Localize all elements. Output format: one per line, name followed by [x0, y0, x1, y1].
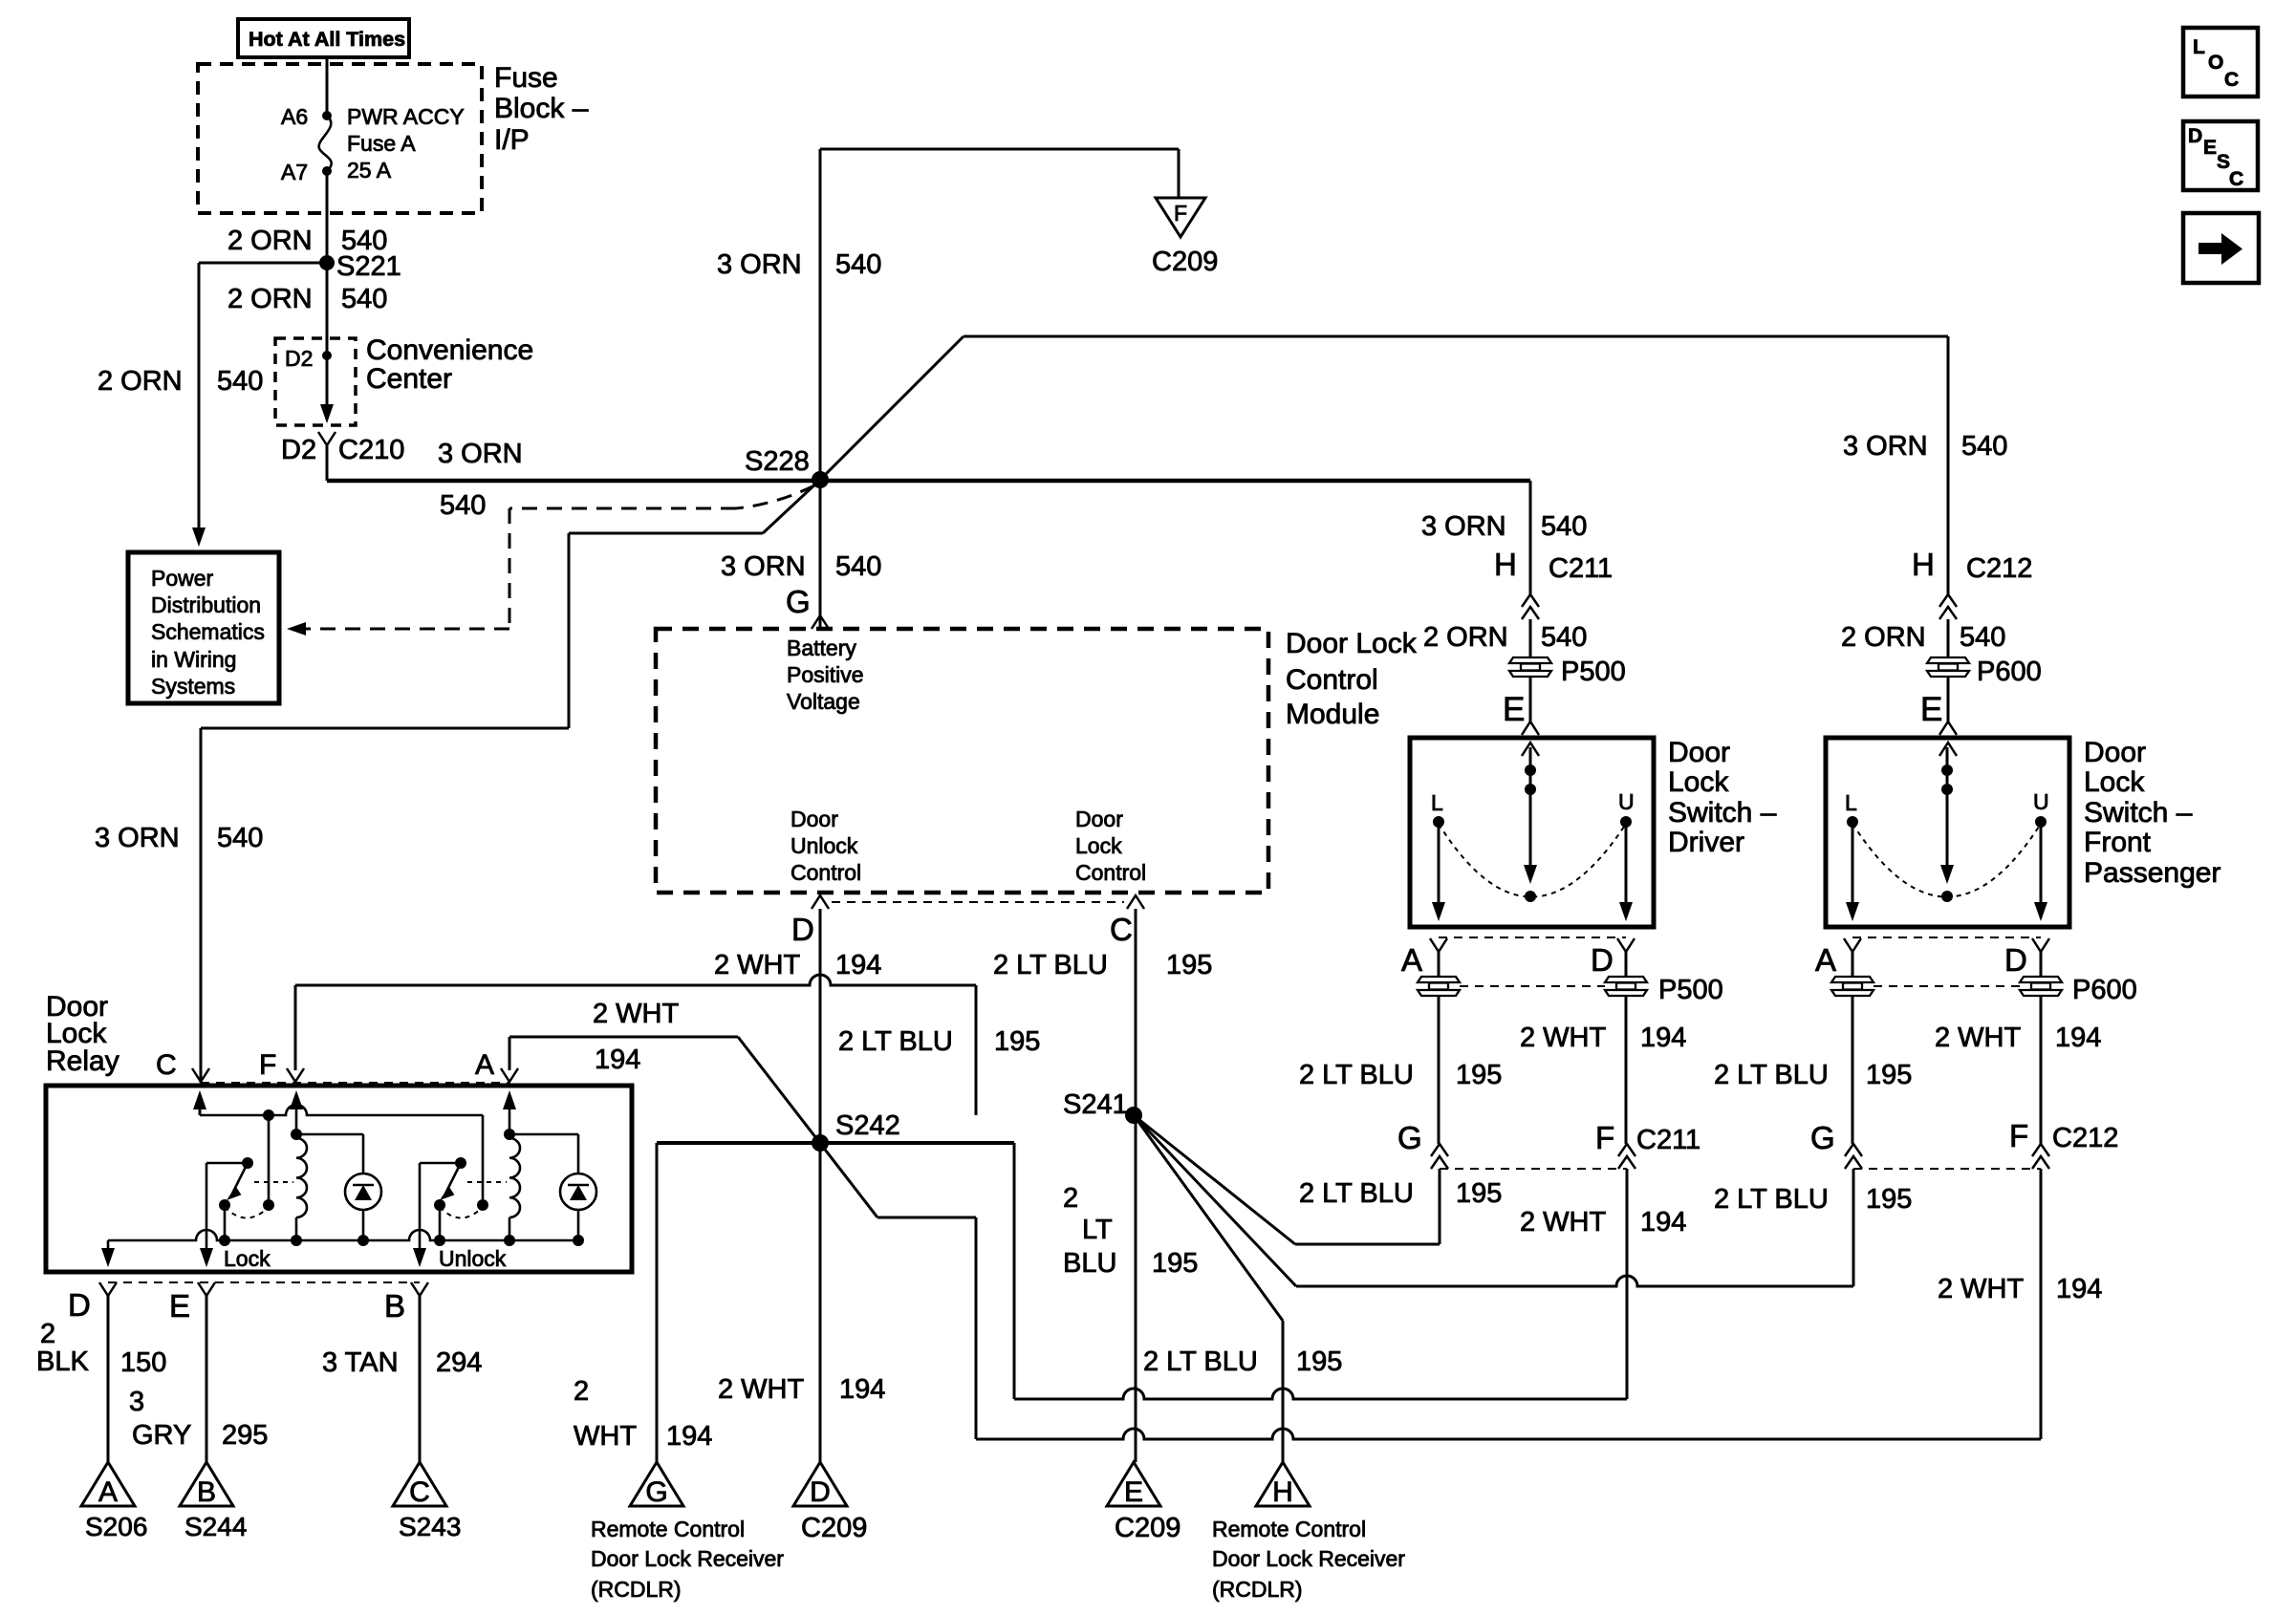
- svg-text:BLK: BLK: [36, 1346, 89, 1377]
- svg-text:L: L: [1845, 790, 1857, 815]
- svg-text:S243: S243: [399, 1512, 461, 1541]
- svg-text:C209: C209: [1152, 247, 1218, 277]
- svg-text:540: 540: [1541, 622, 1587, 653]
- svg-text:A: A: [475, 1049, 494, 1081]
- svg-text:Unlock: Unlock: [439, 1246, 507, 1271]
- svg-text:D: D: [1591, 942, 1614, 978]
- svg-text:S242: S242: [835, 1110, 900, 1141]
- svg-text:2 WHT: 2 WHT: [593, 999, 680, 1029]
- svg-text:Block –: Block –: [494, 93, 589, 124]
- svg-text:194: 194: [2055, 1023, 2101, 1053]
- svg-text:Center: Center: [366, 363, 452, 395]
- svg-text:Hot At All Times: Hot At All Times: [249, 28, 405, 51]
- svg-text:(RCDLR): (RCDLR): [591, 1577, 682, 1602]
- svg-text:Fuse: Fuse: [494, 62, 558, 94]
- svg-text:195: 195: [994, 1026, 1040, 1057]
- svg-text:E: E: [2203, 137, 2217, 159]
- svg-text:Door: Door: [791, 807, 838, 831]
- svg-text:194: 194: [835, 950, 881, 980]
- svg-text:D: D: [68, 1287, 91, 1323]
- svg-text:Relay: Relay: [46, 1045, 119, 1077]
- svg-text:C: C: [2229, 168, 2243, 190]
- svg-text:3: 3: [129, 1387, 144, 1417]
- svg-text:540: 540: [1541, 511, 1587, 542]
- svg-text:Lock: Lock: [1668, 766, 1729, 798]
- svg-text:A: A: [98, 1476, 118, 1508]
- svg-text:Power: Power: [151, 566, 214, 591]
- svg-text:GRY: GRY: [132, 1420, 191, 1451]
- svg-text:3 ORN: 3 ORN: [717, 249, 802, 280]
- svg-text:D: D: [791, 912, 814, 947]
- svg-text:540: 540: [217, 823, 263, 853]
- svg-text:E: E: [1503, 691, 1525, 728]
- svg-text:Lock: Lock: [224, 1246, 271, 1271]
- svg-text:L: L: [2193, 36, 2205, 58]
- svg-text:540: 540: [835, 249, 881, 280]
- svg-text:U: U: [1618, 789, 1635, 814]
- svg-text:25 A: 25 A: [347, 158, 392, 183]
- svg-text:Convenience: Convenience: [366, 334, 533, 366]
- svg-text:2 LT BLU: 2 LT BLU: [1714, 1060, 1829, 1090]
- svg-text:G: G: [1397, 1120, 1422, 1155]
- svg-text:Door Lock: Door Lock: [1286, 628, 1418, 659]
- svg-text:F: F: [1174, 201, 1187, 226]
- svg-text:195: 195: [1152, 1248, 1198, 1279]
- svg-text:2 WHT: 2 WHT: [1938, 1274, 2025, 1304]
- svg-text:3 TAN: 3 TAN: [322, 1347, 399, 1378]
- svg-text:194: 194: [1640, 1023, 1686, 1053]
- svg-text:Door Lock Receiver: Door Lock Receiver: [591, 1546, 784, 1571]
- svg-text:L: L: [1431, 790, 1443, 815]
- svg-text:C: C: [2224, 69, 2239, 91]
- svg-text:2 WHT: 2 WHT: [714, 950, 801, 980]
- svg-text:G: G: [1810, 1120, 1835, 1155]
- svg-text:S244: S244: [184, 1512, 247, 1541]
- svg-text:Positive: Positive: [787, 662, 864, 687]
- svg-text:P600: P600: [2072, 975, 2137, 1005]
- svg-text:Voltage: Voltage: [787, 689, 860, 714]
- svg-text:B: B: [384, 1288, 405, 1324]
- svg-text:P600: P600: [1977, 657, 2042, 687]
- svg-text:2 LT BLU: 2 LT BLU: [1714, 1184, 1829, 1215]
- svg-text:Lock: Lock: [1075, 833, 1122, 858]
- svg-text:195: 195: [1456, 1060, 1502, 1090]
- svg-text:D2: D2: [281, 435, 316, 465]
- svg-text:Control: Control: [1075, 860, 1146, 885]
- svg-text:2 ORN: 2 ORN: [227, 284, 313, 314]
- svg-text:C210: C210: [338, 435, 404, 465]
- svg-text:in Wiring: in Wiring: [151, 647, 236, 672]
- svg-text:C209: C209: [1115, 1513, 1180, 1543]
- svg-text:Systems: Systems: [151, 674, 235, 699]
- svg-text:3 ORN: 3 ORN: [1843, 431, 1928, 462]
- svg-text:P500: P500: [1658, 975, 1723, 1005]
- svg-text:Lock: Lock: [2084, 766, 2145, 798]
- svg-text:Driver: Driver: [1668, 827, 1744, 858]
- svg-text:Control: Control: [1286, 664, 1378, 696]
- svg-text:540: 540: [835, 551, 881, 582]
- svg-text:C: C: [1110, 912, 1133, 947]
- svg-text:S206: S206: [85, 1512, 147, 1541]
- svg-text:2 LT BLU: 2 LT BLU: [993, 950, 1108, 980]
- svg-text:Switch –: Switch –: [1668, 797, 1777, 829]
- svg-text:Unlock: Unlock: [791, 833, 858, 858]
- svg-text:194: 194: [2056, 1274, 2102, 1304]
- svg-text:2 LT BLU: 2 LT BLU: [838, 1026, 953, 1057]
- svg-text:2 WHT: 2 WHT: [1520, 1023, 1607, 1053]
- svg-text:195: 195: [1296, 1346, 1342, 1377]
- svg-text:195: 195: [1166, 950, 1212, 980]
- svg-text:Fuse A: Fuse A: [347, 131, 416, 156]
- svg-text:Module: Module: [1286, 699, 1379, 730]
- svg-text:Door: Door: [1668, 737, 1730, 768]
- svg-text:A: A: [1401, 942, 1422, 978]
- svg-text:Remote Control: Remote Control: [591, 1517, 745, 1541]
- svg-text:C211: C211: [1636, 1125, 1700, 1155]
- svg-text:194: 194: [666, 1421, 712, 1452]
- svg-text:2 ORN: 2 ORN: [1423, 622, 1508, 653]
- svg-text:C212: C212: [1966, 553, 2032, 584]
- svg-text:PWR ACCY: PWR ACCY: [347, 104, 465, 129]
- svg-text:E: E: [1124, 1476, 1143, 1508]
- svg-text:I/P: I/P: [494, 124, 530, 156]
- svg-text:B: B: [197, 1476, 216, 1508]
- svg-text:LT: LT: [1082, 1215, 1113, 1245]
- svg-text:Distribution: Distribution: [151, 592, 261, 617]
- svg-text:BLU: BLU: [1063, 1248, 1116, 1279]
- svg-text:(RCDLR): (RCDLR): [1212, 1577, 1303, 1602]
- svg-text:2 ORN: 2 ORN: [227, 226, 313, 256]
- svg-text:3 ORN: 3 ORN: [721, 551, 806, 582]
- svg-text:D2: D2: [285, 346, 313, 371]
- svg-text:194: 194: [839, 1374, 885, 1405]
- svg-text:S241: S241: [1063, 1089, 1128, 1120]
- svg-text:540: 540: [1961, 431, 2007, 462]
- svg-text:Battery: Battery: [787, 635, 856, 660]
- svg-text:Control: Control: [791, 860, 861, 885]
- svg-text:2: 2: [40, 1319, 55, 1349]
- svg-text:Door Lock Receiver: Door Lock Receiver: [1212, 1546, 1405, 1571]
- svg-text:Passenger: Passenger: [2084, 857, 2220, 889]
- svg-text:Remote Control: Remote Control: [1212, 1517, 1366, 1541]
- svg-text:2 WHT: 2 WHT: [718, 1374, 805, 1405]
- svg-text:2 ORN: 2 ORN: [1841, 622, 1926, 653]
- svg-text:D: D: [2004, 942, 2027, 978]
- svg-text:540: 540: [1960, 622, 2005, 653]
- svg-text:C212: C212: [2052, 1123, 2118, 1153]
- svg-text:F: F: [259, 1049, 276, 1081]
- svg-text:294: 294: [436, 1347, 482, 1378]
- svg-text:540: 540: [440, 490, 486, 521]
- svg-text:S: S: [2217, 151, 2230, 173]
- svg-text:Front: Front: [2084, 827, 2152, 858]
- svg-text:F: F: [2009, 1118, 2028, 1153]
- svg-text:2 LT BLU: 2 LT BLU: [1143, 1346, 1258, 1377]
- svg-text:194: 194: [1640, 1207, 1686, 1238]
- svg-text:Door: Door: [1075, 807, 1123, 831]
- svg-text:A: A: [1815, 942, 1836, 978]
- svg-text:2 WHT: 2 WHT: [1935, 1023, 2022, 1053]
- svg-text:2: 2: [1063, 1183, 1078, 1214]
- svg-text:P500: P500: [1561, 657, 1626, 687]
- svg-text:540: 540: [341, 284, 387, 314]
- svg-text:H: H: [1494, 547, 1517, 582]
- svg-text:G: G: [645, 1476, 667, 1508]
- svg-text:3 ORN: 3 ORN: [438, 439, 523, 469]
- svg-text:295: 295: [222, 1420, 268, 1451]
- svg-text:D: D: [2188, 125, 2202, 147]
- svg-text:2 WHT: 2 WHT: [1520, 1207, 1607, 1238]
- svg-text:E: E: [1920, 691, 1942, 728]
- svg-text:150: 150: [120, 1347, 166, 1378]
- svg-text:3 ORN: 3 ORN: [95, 823, 180, 853]
- svg-text:U: U: [2033, 789, 2049, 814]
- svg-text:D: D: [810, 1476, 831, 1508]
- svg-text:195: 195: [1866, 1184, 1912, 1215]
- svg-text:C211: C211: [1549, 553, 1613, 584]
- svg-text:H: H: [1912, 547, 1935, 582]
- svg-text:C: C: [156, 1049, 177, 1081]
- svg-text:2: 2: [574, 1376, 589, 1407]
- svg-text:2 ORN: 2 ORN: [97, 366, 183, 397]
- svg-text:F: F: [1595, 1120, 1614, 1155]
- svg-text:194: 194: [595, 1044, 640, 1075]
- svg-text:S228: S228: [745, 446, 810, 477]
- svg-text:195: 195: [1866, 1060, 1912, 1090]
- svg-text:S221: S221: [336, 251, 401, 282]
- svg-text:C209: C209: [801, 1513, 867, 1543]
- svg-text:A6: A6: [281, 104, 308, 129]
- svg-text:C: C: [409, 1476, 430, 1508]
- svg-text:WHT: WHT: [574, 1421, 637, 1452]
- svg-text:2 LT BLU: 2 LT BLU: [1299, 1060, 1414, 1090]
- svg-text:195: 195: [1456, 1178, 1502, 1209]
- svg-text:3 ORN: 3 ORN: [1421, 511, 1506, 542]
- svg-text:Schematics: Schematics: [151, 619, 265, 644]
- svg-text:2 LT BLU: 2 LT BLU: [1299, 1178, 1414, 1209]
- svg-text:E: E: [169, 1288, 190, 1324]
- svg-text:H: H: [1272, 1476, 1293, 1508]
- svg-text:O: O: [2208, 52, 2223, 74]
- svg-text:Switch –: Switch –: [2084, 797, 2193, 829]
- svg-text:A7: A7: [281, 160, 308, 184]
- svg-text:540: 540: [217, 366, 263, 397]
- svg-text:G: G: [786, 584, 811, 619]
- svg-text:Door: Door: [2084, 737, 2146, 768]
